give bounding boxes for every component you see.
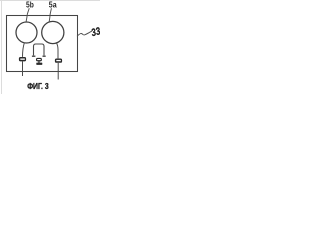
bell housing between reels	[34, 44, 45, 55]
leader line 5a	[49, 8, 51, 22]
leader line 33	[77, 31, 92, 36]
wire from reel 5b down	[23, 43, 25, 57]
svg-text:5a: 5a	[49, 0, 57, 9]
thumbnail left border	[1, 0, 3, 94]
thumbnail top border	[0, 0, 100, 2]
bell rim left foot	[32, 55, 36, 57]
bell rim right foot	[43, 55, 46, 57]
right plug terminal	[55, 59, 62, 63]
leader line 5b	[26, 8, 29, 22]
enclosure box 33	[7, 16, 78, 72]
wire below left plug	[22, 61, 24, 76]
center nozzle plug	[36, 58, 42, 65]
wire from reel 5a down	[56, 42, 58, 58]
reel 5a (right circle)	[42, 21, 64, 43]
wire below right plug	[57, 63, 59, 80]
svg-text:5b: 5b	[26, 0, 34, 9]
reel 5b (left circle)	[16, 22, 37, 43]
svg-text:ФИГ. 3: ФИГ. 3	[27, 82, 49, 91]
left plug terminal	[19, 57, 26, 61]
svg-text:33: 33	[90, 25, 100, 39]
